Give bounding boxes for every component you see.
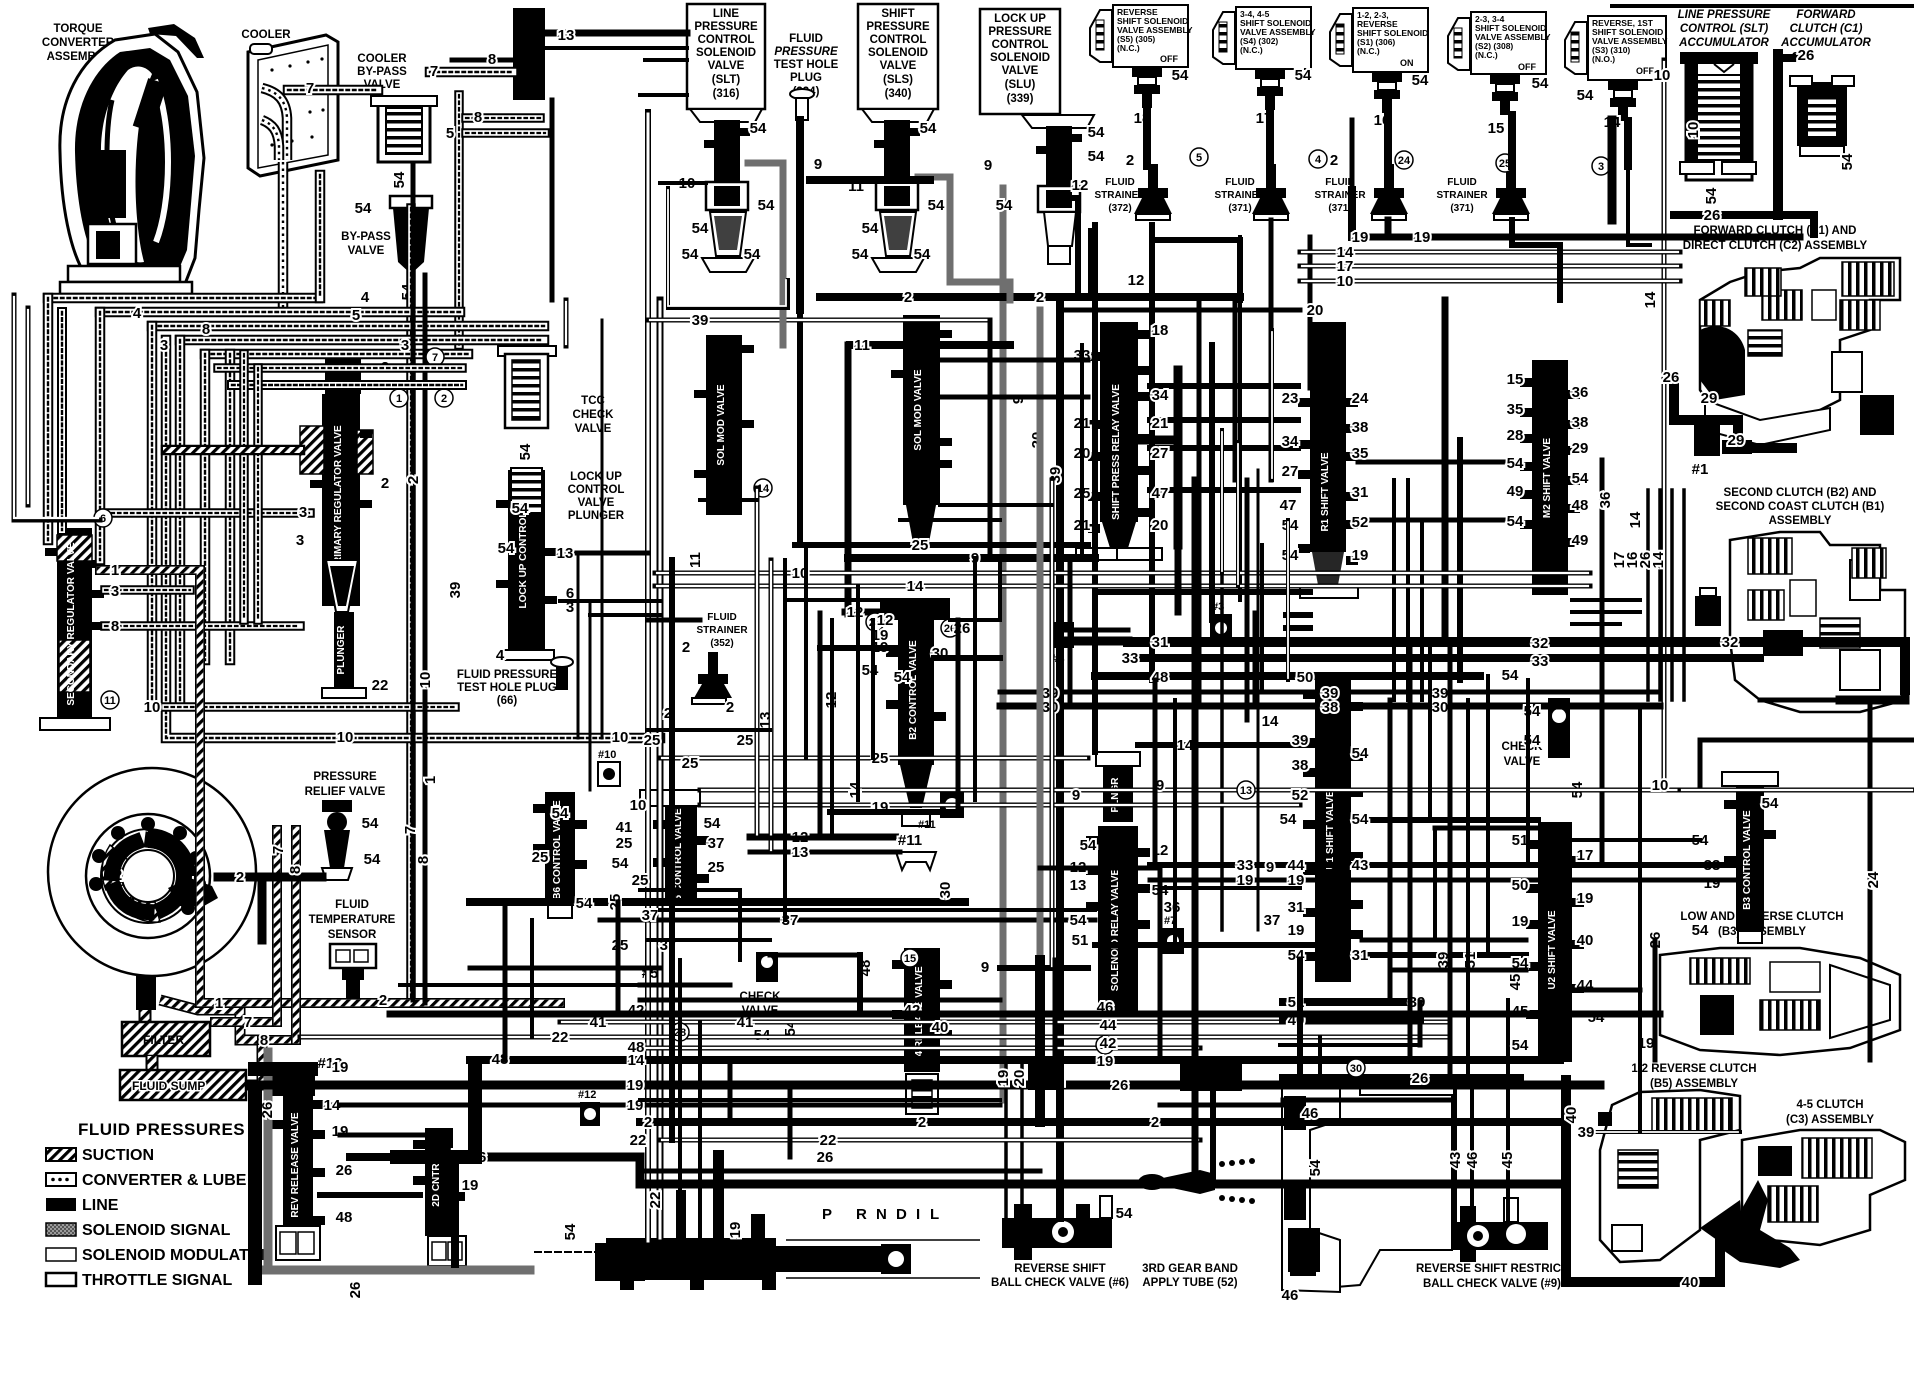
relay valve links xyxy=(1150,386,1298,490)
svg-text:54: 54 xyxy=(1282,547,1299,564)
bead horizontal 385 xyxy=(232,384,462,386)
svg-text:40: 40 xyxy=(1682,1274,1699,1291)
svg-text:(N.C.): (N.C.) xyxy=(1117,43,1140,53)
wire bead bypass down xyxy=(410,208,412,1003)
wire 19 B2 left xyxy=(820,645,898,651)
svg-text:CONVERTER & LUBE: CONVERTER & LUBE xyxy=(82,1172,247,1189)
svg-text:(316): (316) xyxy=(713,88,740,100)
B3 control valve xyxy=(1722,772,1778,943)
blob joint xyxy=(1028,1060,1064,1090)
tag big buses xyxy=(1042,634,1739,964)
svg-text:SECOND COAST CLUTCH (B1): SECOND COAST CLUTCH (B1) xyxy=(1716,501,1885,513)
wire SLS mod links xyxy=(940,360,1088,397)
line 2 pump out xyxy=(218,877,322,940)
svg-text:CLUTCH (C1): CLUTCH (C1) xyxy=(1790,23,1863,35)
svg-text:L: L xyxy=(930,1206,939,1223)
outline verticals right of relay xyxy=(1220,430,1224,573)
svg-text:54: 54 xyxy=(1088,148,1105,165)
tag bottom left xyxy=(215,992,744,1298)
label reverse shift restrict ball check valve xyxy=(1416,1263,1568,1290)
wire 12 elbow xyxy=(845,609,898,616)
svg-text:(66): (66) xyxy=(497,695,518,707)
svg-text:CONTROL: CONTROL xyxy=(568,484,625,496)
black connector manual valve left xyxy=(595,1243,645,1281)
svg-text:54: 54 xyxy=(612,855,629,872)
3rd gear band apply tube (bullet) xyxy=(1116,1158,1255,1222)
svg-text:VALVE: VALVE xyxy=(880,60,917,72)
vertical 1390 xyxy=(1388,700,1393,1002)
vertical 1700 B3 xyxy=(1700,740,1914,786)
bus 40b xyxy=(1283,1016,1420,1024)
suction pipe pump to filter xyxy=(144,978,146,1030)
wire 26 right vert xyxy=(1653,940,1658,1060)
solenoid S1 drop xyxy=(1384,113,1392,166)
svg-text:54: 54 xyxy=(750,120,767,137)
tag top right xyxy=(1627,47,1814,528)
svg-text:8: 8 xyxy=(488,51,496,68)
svg-text:26: 26 xyxy=(817,1149,834,1166)
vertical 1430 xyxy=(1428,642,1432,820)
wire 10 bead left xyxy=(165,706,455,708)
svg-text:9: 9 xyxy=(1072,787,1080,804)
svg-text:13: 13 xyxy=(792,844,809,861)
svg-text:2: 2 xyxy=(1126,152,1134,169)
vertical 860 heavy xyxy=(857,955,863,1010)
wire 955 link xyxy=(770,953,860,958)
svg-text:32: 32 xyxy=(1722,634,1739,651)
outline vertical TCC xyxy=(564,300,569,346)
svg-text:SECONDARY REGULATOR VALVE: SECONDARY REGULATOR VALVE xyxy=(66,542,77,705)
vertical 700 xyxy=(698,1022,702,1240)
svg-text:42: 42 xyxy=(1100,1035,1117,1052)
P R N D I L letters xyxy=(822,1206,939,1223)
vertical 24 mid right xyxy=(1600,460,1605,820)
svg-text:12: 12 xyxy=(1072,177,1089,194)
outline vertical 1040 gray aux xyxy=(1050,480,1055,968)
suction line 8 sump xyxy=(262,1039,296,1041)
svg-text:4: 4 xyxy=(496,647,505,664)
svg-text:14: 14 xyxy=(1650,551,1667,568)
svg-text:R1 SHIFT VALVE: R1 SHIFT VALVE xyxy=(1320,452,1331,531)
svg-text:PRESSURE: PRESSURE xyxy=(694,21,758,33)
svg-text:#11: #11 xyxy=(918,819,936,831)
svg-text:BY-PASS: BY-PASS xyxy=(357,66,407,78)
wire 970 xyxy=(1390,968,1526,973)
fluid strainer 371c xyxy=(1436,164,1530,220)
legend line xyxy=(46,1198,76,1211)
bus 19 right top xyxy=(1352,234,1800,241)
svg-text:25: 25 xyxy=(708,859,725,876)
bus 9 xyxy=(848,554,1095,562)
svg-text:LINE: LINE xyxy=(713,8,740,20)
bus 14 U1 xyxy=(1138,742,1315,748)
svg-text:VALVE: VALVE xyxy=(1002,65,1039,77)
long outline 14 xyxy=(655,584,1590,589)
svg-text:7: 7 xyxy=(270,846,287,854)
fluid sump xyxy=(120,1070,246,1100)
svg-text:TEMPERATURE: TEMPERATURE xyxy=(309,914,396,926)
label pressure relief valve xyxy=(305,771,386,798)
bead vertical 62 xyxy=(61,312,63,530)
svg-text:5: 5 xyxy=(446,125,454,142)
box SLT (316) xyxy=(687,4,765,109)
pump drain xyxy=(136,976,156,1010)
svg-text:BALL CHECK VALVE (#6): BALL CHECK VALVE (#6) xyxy=(991,1277,1129,1289)
svg-text:4-5 CLUTCH: 4-5 CLUTCH xyxy=(1796,1099,1863,1111)
outline vertical 771 xyxy=(769,560,774,852)
svg-text:54: 54 xyxy=(552,805,569,822)
svg-text:54: 54 xyxy=(562,1223,579,1240)
svg-text:14: 14 xyxy=(1642,291,1659,308)
svg-text:SENSOR: SENSOR xyxy=(328,929,377,941)
svg-text:26: 26 xyxy=(1798,47,1815,64)
svg-text:SOLENOID: SOLENOID xyxy=(696,47,756,59)
test hole plug 66 symbol xyxy=(551,657,573,690)
bus 46b xyxy=(1283,1098,1450,1103)
verticals 43 46 45 xyxy=(1455,1000,1508,1222)
svg-text:54: 54 xyxy=(1507,455,1524,472)
vertical 1240 xyxy=(1238,237,1242,600)
wire 37b xyxy=(660,908,1095,912)
wire 1100 xyxy=(640,1098,1000,1102)
fluid pump xyxy=(48,768,256,976)
arrow blob xyxy=(1700,1200,1745,1260)
svg-text:19: 19 xyxy=(1097,1053,1114,1070)
label fluid pressure test hole plug 66 xyxy=(457,669,558,707)
tag sol relay valve xyxy=(1070,777,1281,949)
svg-text:FLUID SUMP: FLUID SUMP xyxy=(132,1079,205,1093)
legend suction xyxy=(46,1148,76,1161)
suction line 7 filter xyxy=(215,1021,277,1023)
svg-text:1: 1 xyxy=(422,776,439,784)
svg-text:15: 15 xyxy=(904,953,916,965)
svg-text:27: 27 xyxy=(1152,445,1169,462)
svg-text:19: 19 xyxy=(1512,913,1529,930)
tag mid left xyxy=(111,475,629,874)
svg-text:20: 20 xyxy=(1152,517,1169,534)
legend converter & lube xyxy=(46,1173,76,1186)
C1C2 extra dark xyxy=(1745,268,1894,435)
svg-text:SOLENOID SIGNAL: SOLENOID SIGNAL xyxy=(82,1222,231,1239)
wire bead vertical cooler right xyxy=(458,95,460,345)
wire 8 top xyxy=(452,58,513,63)
wire 12 SLU right xyxy=(1060,198,1078,297)
label SLT accumulator xyxy=(1678,9,1771,49)
svg-text:PLUNGER: PLUNGER xyxy=(336,625,347,675)
svg-text:CONTROL (SLT): CONTROL (SLT) xyxy=(1680,23,1769,35)
vertical 1310 into R1 xyxy=(1308,237,1313,388)
svg-text:STRAINER: STRAINER xyxy=(1436,190,1488,201)
svg-text:36: 36 xyxy=(1164,899,1181,916)
svg-text:19: 19 xyxy=(332,1059,349,1076)
svg-text:7: 7 xyxy=(432,352,438,364)
solenoid relay valve xyxy=(1086,826,1150,1014)
svg-text:SECOND CLUTCH (B2) AND: SECOND CLUTCH (B2) AND xyxy=(1724,487,1877,499)
svg-text:#1: #1 xyxy=(1692,461,1709,478)
svg-text:OFF: OFF xyxy=(1160,54,1178,64)
svg-text:38: 38 xyxy=(1572,414,1589,431)
svg-text:2: 2 xyxy=(381,475,389,492)
wire 9 SLS right (solenoid signal) xyxy=(918,177,1010,300)
svg-text:U1 SHIFT VALVE: U1 SHIFT VALVE xyxy=(1325,790,1336,869)
fluid strainer 372 xyxy=(1094,164,1172,220)
vertical 24 far right xyxy=(1868,700,1873,1060)
vertical 1450 xyxy=(1448,642,1453,1085)
SLT modulator valve xyxy=(694,335,754,515)
svg-text:24: 24 xyxy=(1865,871,1882,888)
B5 control valve xyxy=(640,790,709,908)
svg-text:54: 54 xyxy=(744,246,761,263)
svg-text:(372): (372) xyxy=(1108,203,1131,214)
svg-text:1: 1 xyxy=(396,393,402,405)
svg-text:36: 36 xyxy=(1572,384,1589,401)
bead horizontal 368 xyxy=(218,367,462,369)
svg-text:(N.O.): (N.O.) xyxy=(1592,54,1615,64)
svg-text:38: 38 xyxy=(1322,699,1339,716)
svg-text:SOLENOID: SOLENOID xyxy=(990,52,1050,64)
svg-text:40: 40 xyxy=(1577,932,1594,949)
bus 11 xyxy=(850,341,1010,349)
svg-text:22: 22 xyxy=(820,1132,837,1149)
svg-text:48: 48 xyxy=(628,1039,645,1056)
wire 49 xyxy=(1286,615,1310,628)
svg-text:13: 13 xyxy=(558,27,575,44)
svg-text:TORQUE: TORQUE xyxy=(54,23,103,35)
svg-text:FILTER: FILTER xyxy=(143,1033,184,1047)
cooler by-pass valve xyxy=(371,96,437,188)
M2 shift valve xyxy=(1520,360,1580,595)
box SLS (340) xyxy=(858,4,938,109)
svg-text:34: 34 xyxy=(1282,433,1299,450)
svg-text:54: 54 xyxy=(682,246,699,263)
vertical 730 xyxy=(728,1060,733,1122)
vertical 618 xyxy=(616,902,621,1010)
svg-text:CHECK: CHECK xyxy=(573,409,615,421)
svg-text:SHIFT: SHIFT xyxy=(881,8,914,20)
svg-text:54: 54 xyxy=(1088,124,1105,141)
ball check #3 xyxy=(1210,601,1232,642)
svg-text:2: 2 xyxy=(1330,152,1338,169)
bus 48 46 xyxy=(1095,672,1480,680)
gray vertical SLU signal xyxy=(1000,188,1007,1100)
svg-text:(C3) ASSEMBLY: (C3) ASSEMBLY xyxy=(1786,1114,1874,1126)
svg-text:FLUID: FLUID xyxy=(707,612,736,623)
vertical 1155 xyxy=(1153,680,1158,868)
B5 assembly xyxy=(1598,1090,1740,1262)
box S5 (305) xyxy=(1090,5,1193,108)
ball check #11 xyxy=(918,792,964,831)
svg-text:7: 7 xyxy=(244,1014,252,1031)
tag bottom center xyxy=(628,959,1319,1166)
wire 5 bead xyxy=(466,132,545,134)
svg-text:SHIFT PRESS RELAY VALVE: SHIFT PRESS RELAY VALVE xyxy=(1111,384,1122,520)
svg-text:B3 CONTROL VALVE: B3 CONTROL VALVE xyxy=(1742,810,1753,910)
wire S3 link xyxy=(1628,166,1650,245)
maze 890 left xyxy=(640,890,740,960)
tag SLT area xyxy=(679,120,823,263)
vertical 1352 xyxy=(1348,190,1356,237)
svg-text:TEST HOLE: TEST HOLE xyxy=(774,59,839,71)
outline 39b xyxy=(1590,1130,1740,1134)
torque converter assembly xyxy=(60,24,204,299)
svg-text:SOL MOD VALVE: SOL MOD VALVE xyxy=(716,384,727,465)
solenoid S3 drop xyxy=(1624,121,1632,166)
C1C2 stripes extra xyxy=(1700,300,1730,326)
svg-text:19: 19 xyxy=(1288,922,1305,939)
wire 11 plug link xyxy=(810,176,930,184)
tag M2 valve xyxy=(1507,371,1667,568)
svg-text:CONTROL: CONTROL xyxy=(992,39,1049,51)
wire 7 bead bypass right xyxy=(430,71,513,73)
svg-text:45: 45 xyxy=(1507,974,1524,991)
bus 25 xyxy=(795,542,1088,548)
wire 968 xyxy=(470,966,660,971)
svg-text:8: 8 xyxy=(474,109,482,126)
R1 shift valve xyxy=(1298,322,1358,598)
maze vertical 1160 xyxy=(1158,868,1163,1060)
label B4 servo xyxy=(1373,1143,1436,1230)
vertical 1255 xyxy=(1253,613,1258,706)
svg-text:37: 37 xyxy=(642,907,659,924)
svg-text:4: 4 xyxy=(133,305,142,322)
reverse shift restrict ball check valve #9 xyxy=(1448,1198,1548,1262)
svg-text:14: 14 xyxy=(1262,713,1279,730)
wire 8 bead xyxy=(466,117,540,119)
tag circled numbers xyxy=(94,148,1610,1077)
U2 shift valve xyxy=(1526,822,1584,1062)
svg-text:(352): (352) xyxy=(710,638,733,649)
svg-text:SOLENOID MODULATOR: SOLENOID MODULATOR xyxy=(82,1247,273,1264)
svg-text:25: 25 xyxy=(737,732,754,749)
svg-text:STRAINER: STRAINER xyxy=(696,625,748,636)
SLS solenoid valve symbol xyxy=(862,109,934,272)
svg-text:SOL MOD VALVE: SOL MOD VALVE xyxy=(913,369,924,450)
verticals right of SLU xyxy=(1090,230,1212,700)
wire 26 heavy elbow to C1C2 xyxy=(1674,383,1792,448)
bus 31 19 xyxy=(1362,952,1526,958)
wire 30 B2 right xyxy=(934,655,1000,661)
2nd control valve (bottom) xyxy=(413,1128,466,1266)
label B2 B1 assembly xyxy=(1716,487,1885,527)
svg-text:COOLER: COOLER xyxy=(241,29,291,41)
verticals 19 20 to check6 xyxy=(1006,1060,1022,1218)
svg-text:LOCK UP CONTROL: LOCK UP CONTROL xyxy=(518,511,529,608)
svg-text:1-2 REVERSE CLUTCH: 1-2 REVERSE CLUTCH xyxy=(1631,1063,1756,1075)
long outline 10 xyxy=(655,571,1590,576)
svg-text:19: 19 xyxy=(727,1222,744,1239)
svg-text:54: 54 xyxy=(1502,667,1519,684)
vertical 532 xyxy=(530,920,534,1037)
wire 2 S2 heavy drop xyxy=(1608,120,1617,220)
wire 840 xyxy=(1572,838,1700,842)
bus 2b xyxy=(640,1118,1560,1126)
vertical pair top tower xyxy=(550,100,555,300)
bus 48c xyxy=(470,1056,1560,1064)
suction elbow sump right xyxy=(160,1000,262,1085)
svg-text:22: 22 xyxy=(552,1029,569,1046)
svg-text:54: 54 xyxy=(1577,87,1594,104)
svg-text:5: 5 xyxy=(352,307,360,324)
svg-text:26: 26 xyxy=(1704,207,1721,224)
svg-text:BY-PASS: BY-PASS xyxy=(341,231,391,243)
wire 19 B2 bottom xyxy=(830,809,958,815)
vertical 1222 thin xyxy=(1220,560,1224,930)
converter lube bead verticals xyxy=(47,298,49,540)
wire 2 strainer link xyxy=(1152,240,1240,300)
svg-text:51: 51 xyxy=(1072,932,1089,949)
gray 26 bottom xyxy=(535,1251,640,1253)
svg-text:11: 11 xyxy=(104,695,116,707)
svg-text:33: 33 xyxy=(1532,653,1549,670)
vertical 505 xyxy=(503,902,508,1060)
svg-text:54: 54 xyxy=(362,815,379,832)
svg-text:8: 8 xyxy=(111,618,119,635)
svg-text:54: 54 xyxy=(862,662,879,679)
svg-text:10: 10 xyxy=(612,729,629,746)
svg-text:3: 3 xyxy=(111,583,119,600)
svg-text:54: 54 xyxy=(1532,75,1549,92)
svg-text:54: 54 xyxy=(1692,922,1709,939)
bus 44 33 xyxy=(1150,862,1538,868)
svg-text:9: 9 xyxy=(814,156,822,173)
B2B1 stripes extra xyxy=(1852,548,1886,578)
U1 shift valve xyxy=(1303,672,1363,982)
bus 31 32 xyxy=(1128,642,1905,690)
label C3 assembly xyxy=(1786,1099,1874,1126)
svg-text:54: 54 xyxy=(928,197,945,214)
B6 control valve xyxy=(533,792,587,918)
vertical 1410 xyxy=(1408,642,1413,1060)
svg-text:25: 25 xyxy=(616,835,633,852)
check valve (right) xyxy=(1502,667,1586,798)
svg-text:14: 14 xyxy=(1627,511,1644,528)
svg-text:27: 27 xyxy=(1282,463,1299,480)
reverse release valve (bottom left) xyxy=(270,1062,325,1260)
svg-text:2: 2 xyxy=(682,639,690,656)
svg-text:54: 54 xyxy=(758,197,775,214)
svg-text:R: R xyxy=(856,1206,867,1223)
svg-text:35: 35 xyxy=(1352,445,1369,462)
bus 2 xyxy=(820,293,1240,301)
svg-text:54: 54 xyxy=(920,120,937,137)
svg-text:54: 54 xyxy=(1352,745,1369,762)
wires lockup right xyxy=(560,601,660,615)
svg-text:54: 54 xyxy=(1703,187,1720,204)
svg-text:32: 32 xyxy=(1532,635,1549,652)
svg-text:VALVE: VALVE xyxy=(578,497,615,509)
svg-text:54: 54 xyxy=(1307,1159,1324,1176)
svg-text:VALVE: VALVE xyxy=(575,423,612,435)
svg-text:10: 10 xyxy=(1337,273,1354,290)
lock up control valve xyxy=(496,468,625,660)
svg-text:50: 50 xyxy=(1512,877,1529,894)
svg-text:54: 54 xyxy=(704,815,721,832)
vertical 1528 xyxy=(1526,680,1530,865)
svg-text:15: 15 xyxy=(1488,120,1505,137)
fluid strainer 352 xyxy=(692,612,748,704)
svg-text:29: 29 xyxy=(1572,440,1589,457)
svg-text:26: 26 xyxy=(1663,369,1680,386)
svg-text:14: 14 xyxy=(1177,737,1194,754)
svg-text:26: 26 xyxy=(336,1162,353,1179)
cooler xyxy=(248,35,338,176)
svg-text:2: 2 xyxy=(1036,289,1044,306)
svg-text:31: 31 xyxy=(1288,899,1305,916)
svg-text:CONTROL: CONTROL xyxy=(870,34,927,46)
bus 20 xyxy=(1060,308,1300,313)
svg-text:9: 9 xyxy=(984,157,992,174)
svg-text:13: 13 xyxy=(557,545,574,562)
